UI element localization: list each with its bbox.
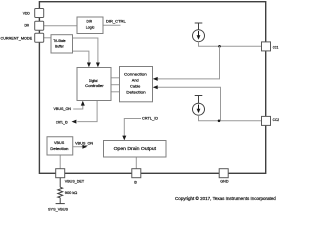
chip outline bbox=[39, 2, 265, 174]
svg-text:Connection: Connection bbox=[124, 72, 147, 77]
pin GND bbox=[219, 169, 228, 178]
svg-text:Tri-State: Tri-State bbox=[53, 39, 65, 43]
arrow into Connection box right edge (upper) bbox=[153, 77, 158, 81]
svg-text:Controller: Controller bbox=[85, 84, 104, 88]
svg-text:Digital: Digital bbox=[89, 79, 98, 83]
current source I1 supply T-bar bbox=[195, 23, 203, 30]
svg-text:Open Drain Output: Open Drain Output bbox=[114, 146, 157, 151]
svg-text:Detection: Detection bbox=[126, 90, 146, 95]
box Tri-State Buffer bbox=[51, 35, 73, 53]
current source I2 arrow bbox=[198, 105, 200, 110]
pin VDD bbox=[35, 9, 44, 18]
current source I1 arrow bbox=[198, 31, 200, 36]
box VBUS Detection bbox=[47, 137, 73, 155]
pin ID bbox=[132, 169, 141, 178]
current source I2 bbox=[193, 103, 205, 115]
wire Digital Controller to CRTL_ID stub bbox=[77, 101, 97, 122]
junction node CC1 wire bbox=[218, 45, 221, 48]
svg-text:CC1: CC1 bbox=[273, 45, 279, 49]
wire DIR pin to DIR Logic bbox=[44, 25, 77, 27]
pin CC1 bbox=[262, 42, 271, 51]
wire Open Drain Output to ID pin bbox=[135, 157, 137, 169]
svg-text:GND: GND bbox=[220, 180, 229, 184]
wire I2 to CC2 pin bbox=[199, 115, 262, 121]
current source I1 bbox=[193, 30, 205, 42]
arrow into Digital Controller bottom bbox=[81, 101, 85, 106]
box DIR Logic bbox=[77, 17, 103, 34]
svg-text:DIR_CTRL: DIR_CTRL bbox=[106, 19, 126, 23]
svg-text:VBUS_ON: VBUS_ON bbox=[54, 107, 72, 111]
pin CC2 bbox=[262, 116, 271, 125]
arrow VBUS_ON output bbox=[82, 145, 87, 149]
arrow into Digital Controller top (right) bbox=[96, 63, 100, 68]
svg-text:Buffer: Buffer bbox=[55, 45, 64, 49]
svg-text:CRTL_ID: CRTL_ID bbox=[56, 121, 68, 125]
svg-text:Copyright © 2017, Texas Instru: Copyright © 2017, Texas Instruments Inco… bbox=[175, 196, 277, 201]
wire VBUS_DET pin to resistor bbox=[59, 178, 61, 188]
wire VBUS Detection to VBUS_DET pin bbox=[59, 155, 61, 169]
svg-text:900 kΩ: 900 kΩ bbox=[65, 191, 78, 195]
svg-text:VBUS_ON: VBUS_ON bbox=[75, 142, 93, 146]
svg-text:VBUS_DET: VBUS_DET bbox=[65, 180, 85, 184]
svg-text:DIR: DIR bbox=[87, 19, 93, 23]
svg-text:SYS_VBUS: SYS_VBUS bbox=[48, 208, 69, 212]
resistor 900 kOhm bbox=[58, 187, 63, 198]
svg-text:And: And bbox=[132, 78, 139, 83]
svg-text:Logic: Logic bbox=[86, 25, 95, 29]
svg-text:DIR: DIR bbox=[25, 24, 30, 28]
box Digital Controller bbox=[77, 68, 111, 101]
wire CC2 node to Connection box lower arrow bbox=[154, 87, 221, 121]
box Open Drain Output bbox=[104, 141, 167, 158]
svg-text:CURRENT_MODE: CURRENT_MODE bbox=[1, 36, 33, 40]
wire Digital Controller to Connection box (middle) bbox=[111, 84, 120, 86]
wire I1 to CC1 pin bbox=[199, 42, 262, 47]
wire Tri-State Buffer top output to Digital Controller bbox=[73, 38, 98, 66]
wire Tri-State Buffer bottom output to Digital Controller bbox=[73, 51, 89, 66]
junction node CC2 wire bbox=[218, 120, 221, 123]
svg-text:VDD: VDD bbox=[23, 12, 30, 16]
wire CRTL_ID to Open Drain Output bbox=[124, 119, 141, 140]
arrow toward CRTL_ID label bbox=[72, 120, 77, 124]
arrow into Digital Controller top (left) bbox=[87, 63, 91, 68]
wire DIR Logic output stub bbox=[103, 24, 121, 26]
wire CURRENT_MODE pin to Tri-State Buffer bbox=[44, 37, 51, 39]
svg-text:VBUS: VBUS bbox=[54, 141, 65, 145]
pin CURRENT_MODE bbox=[35, 33, 44, 42]
wire VBUS_ON into Digital Controller bottom bbox=[73, 102, 83, 109]
wire Digital Controller to Connection box (lower) bbox=[111, 91, 120, 93]
arrow into Open Drain Output top bbox=[122, 136, 126, 141]
pin DIR bbox=[35, 21, 44, 30]
pin VBUS_DET bbox=[56, 169, 65, 178]
arrow into Connection box right edge (lower) bbox=[153, 85, 158, 89]
svg-text:Cable: Cable bbox=[130, 84, 140, 89]
wire resistor to SYS_VBUS bbox=[59, 198, 61, 204]
wire CC1 node to Connection box upper arrow bbox=[154, 46, 220, 79]
current source I2 supply T-bar bbox=[195, 96, 203, 104]
svg-text:CRTL_ID: CRTL_ID bbox=[142, 117, 158, 121]
box Connection And Cable Detection bbox=[120, 67, 153, 102]
svg-text:CC2: CC2 bbox=[273, 118, 280, 122]
wire Digital Controller to Connection box (upper) bbox=[111, 77, 120, 79]
wire VBUS Detection output VBUS_ON bbox=[73, 146, 85, 148]
svg-text:Detection: Detection bbox=[50, 147, 68, 151]
net symbol SYS_VBUS bar bbox=[56, 203, 65, 205]
